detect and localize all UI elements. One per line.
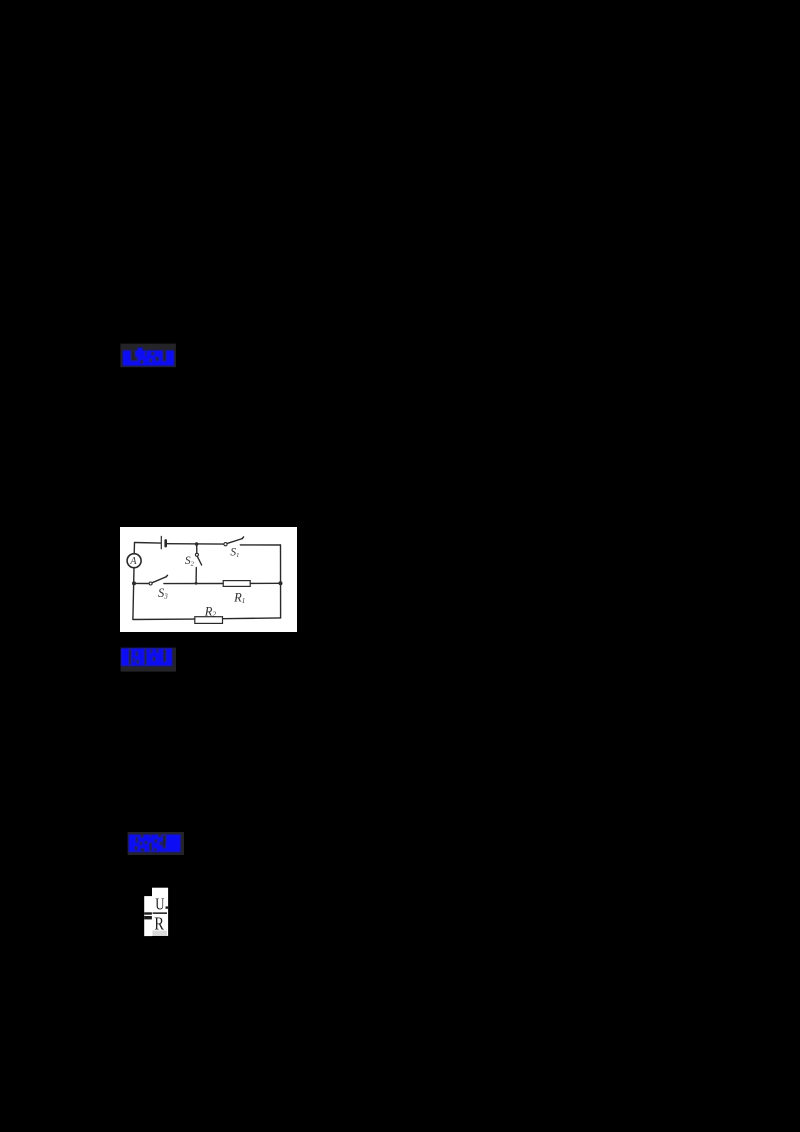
svg-text:U: U	[155, 894, 164, 913]
svg-text:R: R	[154, 913, 164, 933]
svg-text:A: A	[129, 556, 137, 567]
